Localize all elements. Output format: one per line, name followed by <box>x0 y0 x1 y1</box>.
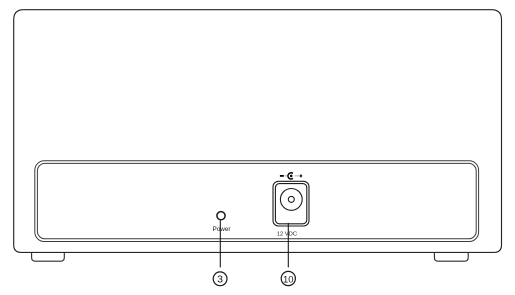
polarity symbol: wire minus to barrel <box>285 175 289 177</box>
power button circle <box>217 212 225 220</box>
callout circle 3 <box>213 272 227 286</box>
polarity symbol: minus bar <box>280 175 284 177</box>
callout circle 10 <box>281 271 295 285</box>
svg-text:Power: Power <box>212 226 231 233</box>
polarity symbol: plus sign <box>300 174 303 177</box>
DC jack barrel circle <box>280 189 302 211</box>
rear panel inner border <box>37 163 476 238</box>
svg-text:10: 10 <box>283 274 294 285</box>
polarity symbol: outer barrel C arc <box>288 173 293 179</box>
polarity symbol: wire dot to plus <box>295 175 299 177</box>
svg-text:3: 3 <box>217 274 223 286</box>
rear panel outer border <box>35 161 479 242</box>
DC jack outer bezel <box>273 181 309 226</box>
leader line to callout 10 <box>287 223 289 268</box>
left foot <box>32 252 65 261</box>
DC jack inner bezel <box>275 184 306 224</box>
DC jack center pin <box>288 196 294 202</box>
device body outline <box>14 10 502 253</box>
leader line to callout 3 <box>219 220 221 267</box>
polarity symbol: center dot <box>290 175 293 178</box>
svg-text:12 VDC: 12 VDC <box>277 231 297 237</box>
right foot <box>434 252 468 261</box>
